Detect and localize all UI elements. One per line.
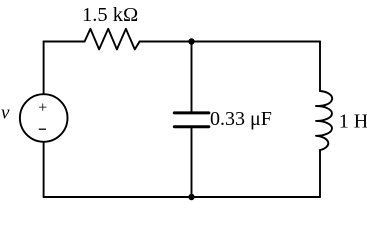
- wire left vertical below source: [43, 142, 45, 197]
- svg-text:0.33 μF: 0.33 μF: [210, 108, 272, 130]
- node junction dot bottom: [188, 194, 194, 200]
- svg-text:v: v: [1, 102, 10, 123]
- node junction dot top: [188, 38, 194, 44]
- wire middle branch lower (capacitor to bottom junction): [191, 128, 193, 197]
- source polarity minus sign: [39, 128, 46, 130]
- capacitor C1 bottom plate: [174, 125, 209, 128]
- svg-text:1 H: 1 H: [339, 111, 367, 133]
- capacitor C1 top plate: [174, 111, 209, 114]
- wire top-left segment: [44, 41, 85, 43]
- wire left vertical above source: [43, 42, 45, 95]
- wire top junction to top-right corner: [192, 41, 321, 43]
- resistor R1 1.5 kΩ zigzag: [85, 29, 140, 50]
- wire right vertical below inductor: [319, 150, 321, 197]
- wire resistor to top junction: [140, 41, 192, 43]
- wire bottom: [44, 196, 320, 198]
- inductor L1 coil: [316, 91, 332, 150]
- voltage source circle U v: [20, 94, 68, 142]
- wire right vertical above inductor: [319, 42, 321, 92]
- svg-text:+: +: [38, 100, 47, 117]
- wire middle branch upper (junction to capacitor): [191, 42, 193, 112]
- svg-text:1.5 kΩ: 1.5 kΩ: [82, 4, 138, 26]
